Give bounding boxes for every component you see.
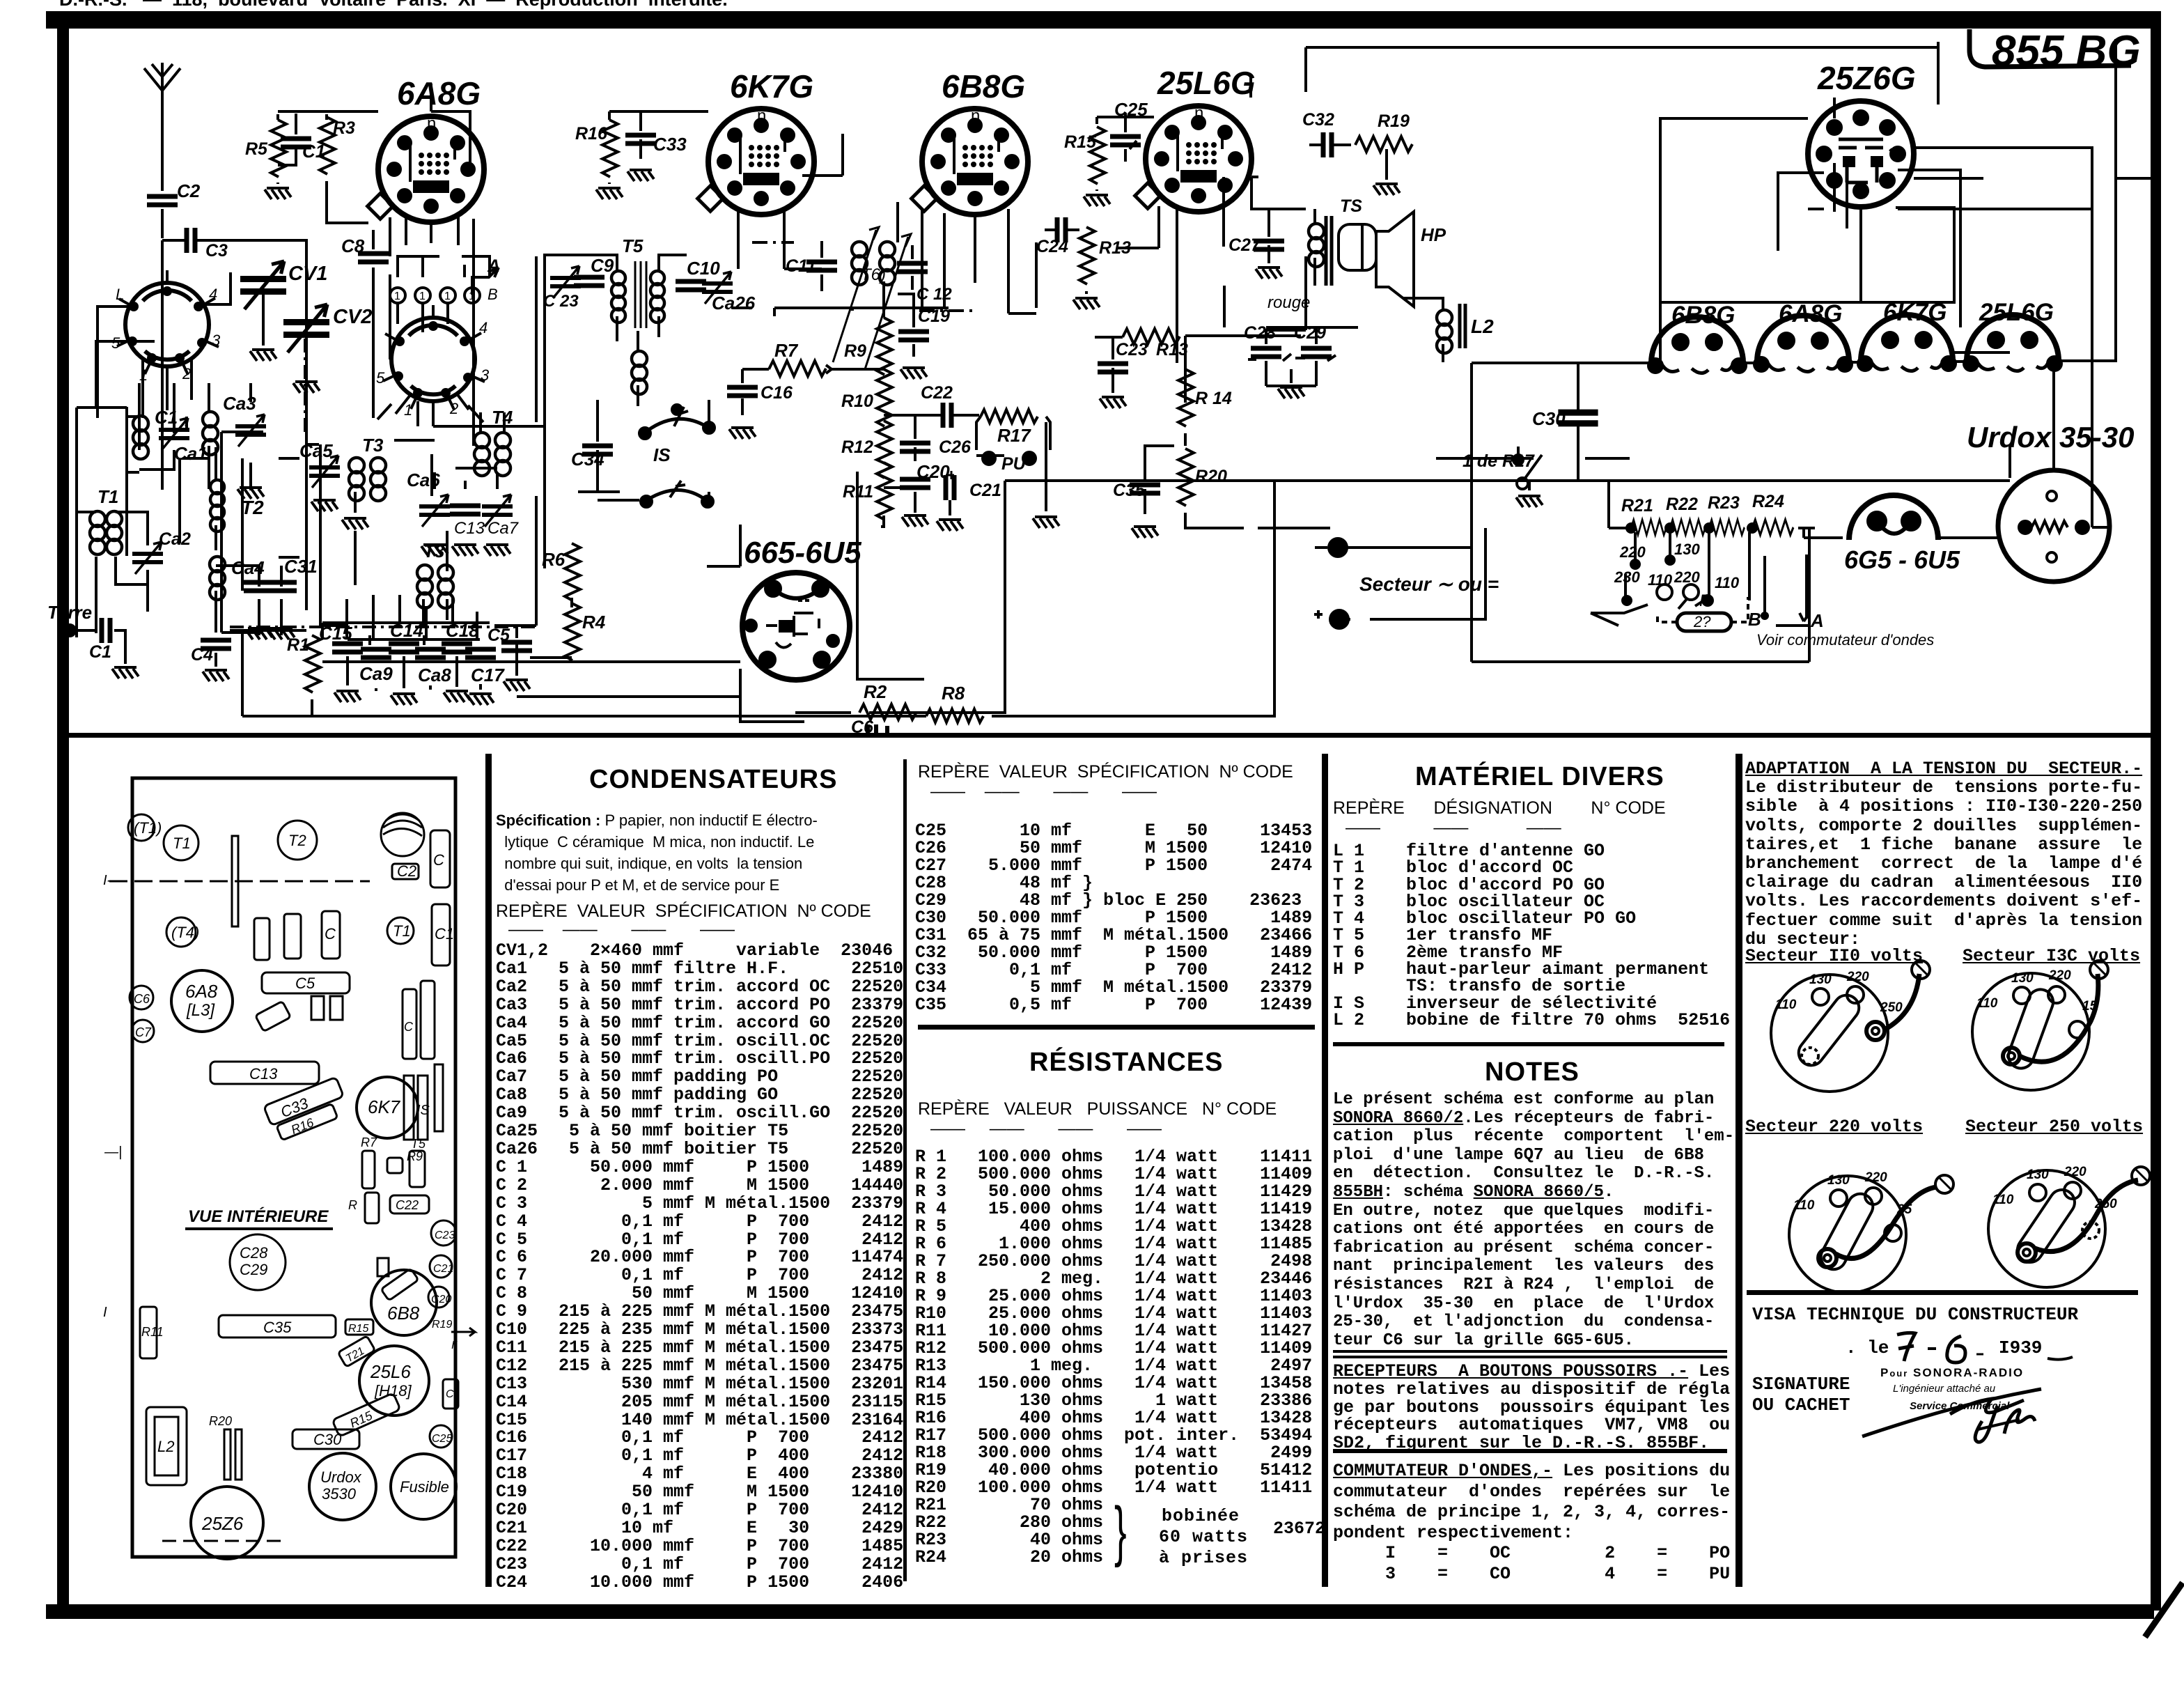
electrolytic C28 — [1244, 323, 1291, 376]
svg-text:1 de R17: 1 de R17 — [1462, 451, 1535, 471]
svg-text:C32: C32 — [1302, 110, 1334, 130]
R15 small box — [345, 1319, 373, 1335]
trimmer C9 — [543, 255, 614, 311]
svg-text:R7: R7 — [361, 1135, 377, 1149]
tube 6K7 — [357, 1077, 418, 1138]
caps C15 pair tall — [403, 981, 435, 1059]
cap C4 tall — [430, 830, 450, 887]
underline below date — [2047, 1357, 2073, 1360]
svg-text:VUE INTÉRIEURE: VUE INTÉRIEURE — [188, 1207, 329, 1226]
trafo T4 small — [166, 917, 199, 947]
svg-text:T6): T6) — [861, 265, 886, 284]
svg-text:T1: T1 — [97, 486, 118, 507]
svg-text:I: I — [103, 1305, 107, 1320]
capacitor C6 — [851, 718, 887, 737]
svg-text:130: 130 — [1674, 541, 1700, 558]
bars right — [435, 1064, 443, 1131]
wire 25L6G drops — [1117, 206, 1177, 363]
ground right — [1516, 481, 1543, 507]
wire mid bottom bus — [322, 274, 740, 697]
svg-text:C: C — [325, 925, 336, 943]
resistor R20 — [1178, 449, 1244, 528]
right border bar — [2151, 11, 2161, 1611]
coil Ca4 + C31 — [210, 556, 318, 635]
two small caps — [311, 996, 343, 1020]
svg-text:(T1): (T1) — [134, 819, 162, 837]
svg-text:R17: R17 — [997, 425, 1031, 446]
trafo T2 — [278, 821, 317, 860]
bottom distribution line — [1472, 480, 1809, 662]
svg-text:C21: C21 — [969, 481, 1001, 500]
svg-text:25Z6G: 25Z6G — [1817, 60, 1916, 96]
R7 bar — [361, 1135, 377, 1188]
svg-text:R: R — [348, 1198, 357, 1212]
svg-text:110: 110 — [1992, 1193, 2014, 1207]
svg-text:—|: —| — [104, 1145, 122, 1160]
wire under 6A8G — [406, 213, 458, 245]
svg-text:Urdox 35-30: Urdox 35-30 — [1967, 421, 2134, 453]
svg-text:230: 230 — [1614, 568, 1640, 586]
col3 rule above resistances — [918, 1025, 1315, 1030]
svg-text:665-6U5: 665-6U5 — [744, 536, 861, 570]
terre terminal — [47, 602, 92, 636]
svg-text:C5: C5 — [295, 975, 315, 992]
resistor R13a — [1073, 227, 1131, 309]
svg-text:C25: C25 — [432, 1433, 452, 1445]
svg-text:6K7G: 6K7G — [730, 68, 813, 104]
svg-text:C21: C21 — [433, 1263, 453, 1275]
svg-text:R24: R24 — [1752, 492, 1784, 511]
cap C33 tilted — [263, 1077, 343, 1126]
svg-text:3: 3 — [212, 332, 221, 349]
secteur terminals — [1314, 528, 1499, 628]
svg-text:1: 1 — [419, 290, 426, 302]
svg-text:R15: R15 — [348, 1323, 368, 1335]
svg-text:C35: C35 — [1113, 481, 1146, 500]
label rouge — [1267, 293, 1310, 312]
variable capacitor CV1 — [240, 261, 327, 361]
capacitor C5 — [487, 624, 532, 691]
svg-text:110: 110 — [1793, 1198, 1815, 1213]
top header bar — [46, 11, 2160, 29]
tube 25L6G — [1135, 65, 1256, 212]
svg-text:C3: C3 — [205, 241, 228, 261]
capacitor C34 — [571, 400, 613, 492]
tube 6A8G — [368, 75, 484, 222]
svg-text:(T4): (T4) — [171, 924, 199, 941]
capacitor C27 — [1228, 209, 1284, 279]
R20 bars — [209, 1414, 242, 1480]
tube 6B8 — [371, 1270, 437, 1335]
svg-text:220: 220 — [1864, 1170, 1887, 1185]
wire antenna down — [161, 117, 164, 191]
loudspeaker HP — [1339, 212, 1446, 307]
resistor R16 tilted — [276, 1103, 338, 1140]
svg-text:4: 4 — [209, 286, 217, 303]
capacitor C11 — [786, 241, 837, 291]
dial secteur 130 — [1972, 961, 2108, 1090]
svg-text:1: 1 — [444, 290, 451, 302]
svg-text:R11: R11 — [141, 1325, 164, 1339]
svg-text:R15: R15 — [1064, 132, 1097, 152]
wire long bottom R8 line — [242, 481, 1274, 722]
ground between C28 C29 — [1278, 369, 1304, 398]
pins row with A arrow — [390, 256, 500, 332]
dashdot gang link — [230, 295, 536, 627]
svg-text:Fusible: Fusible — [400, 1478, 449, 1496]
capacitor C1b — [278, 114, 325, 165]
svg-text:L2: L2 — [1471, 316, 1494, 337]
wires socket2 down — [377, 401, 483, 426]
tube socket S1 — [111, 270, 221, 384]
col4 rule above commutateur — [1333, 1449, 1727, 1453]
svg-text:C5: C5 — [487, 626, 510, 645]
svg-text:IS: IS — [653, 444, 671, 465]
switch IS bars — [404, 1076, 430, 1140]
fusible circle — [391, 1454, 456, 1519]
svg-text:TS: TS — [1340, 196, 1362, 216]
svg-text:C23: C23 — [435, 1230, 455, 1241]
svg-text:CV2: CV2 — [333, 306, 372, 328]
transformer T5 — [568, 235, 687, 341]
filter choke L2 — [1403, 298, 1494, 362]
svg-text:T1: T1 — [393, 922, 411, 940]
svg-text:6A8G: 6A8G — [1779, 300, 1842, 327]
R11 bar left — [140, 1307, 164, 1358]
svg-text:2: 2 — [182, 365, 191, 382]
resistor chain R9 R10 R12 R11 — [841, 307, 892, 527]
wire left column frame — [96, 341, 306, 630]
dashed shaft — [109, 881, 370, 883]
capacitor C20 — [900, 461, 950, 513]
choke coil — [632, 331, 647, 406]
left tick labels — [103, 873, 122, 1320]
svg-text:C2: C2 — [177, 180, 201, 201]
svg-text:1: 1 — [394, 290, 400, 302]
svg-text:C: C — [404, 1020, 414, 1034]
svg-text:Terre: Terre — [47, 602, 92, 623]
svg-text:25L6G: 25L6G — [1979, 299, 2054, 326]
Urdox 35-30 ballast — [1967, 421, 2134, 582]
capacitor C22 — [884, 383, 979, 428]
svg-text:R11: R11 — [843, 482, 873, 502]
svg-text:C27: C27 — [1228, 235, 1261, 255]
svg-text:C30: C30 — [313, 1431, 342, 1448]
wire speaker chain — [1177, 47, 1306, 330]
svg-text:6A8G: 6A8G — [397, 75, 481, 111]
wire heater top right — [1306, 47, 2151, 209]
wire 6K7G drops — [738, 209, 822, 269]
capacitor C32 — [1302, 110, 1351, 157]
svg-text:110: 110 — [1775, 998, 1797, 1012]
svg-text:C: C — [433, 851, 444, 869]
tube 25Z6G rectifier — [1808, 60, 1916, 207]
svg-text:I-: I- — [103, 873, 112, 888]
column divider C — [1322, 754, 1328, 1587]
wire mesh left — [127, 417, 299, 716]
cap C1 tall — [432, 904, 454, 965]
svg-text:CV1: CV1 — [288, 263, 327, 285]
column divider D — [1735, 754, 1742, 1587]
svg-text:C29: C29 — [240, 1261, 267, 1278]
svg-text:C10: C10 — [687, 258, 720, 279]
coil T2 — [210, 447, 264, 550]
svg-text:4: 4 — [479, 319, 487, 336]
svg-text:R22: R22 — [1666, 495, 1698, 514]
coil L1 — [381, 813, 424, 856]
svg-text:[H18]: [H18] — [374, 1382, 412, 1399]
cap C13 wide — [210, 1062, 319, 1084]
resistor R1 — [287, 635, 320, 716]
wire — [161, 209, 164, 238]
svg-text:T4: T4 — [492, 407, 513, 428]
capacitor C4 — [191, 640, 231, 681]
svg-text:R16: R16 — [575, 124, 608, 144]
svg-text:T3: T3 — [423, 541, 445, 561]
svg-text:6G5 - 6U5: 6G5 - 6U5 — [1844, 545, 1960, 574]
svg-text:R2: R2 — [864, 681, 887, 702]
trimmer C10 Ca26 — [676, 258, 756, 313]
antenna — [144, 63, 180, 117]
T5 bar — [409, 1137, 426, 1187]
caps row C11 C12 — [254, 911, 340, 960]
svg-text:2: 2 — [449, 400, 458, 417]
svg-text:C30: C30 — [1532, 408, 1566, 429]
svg-text:220: 220 — [2064, 1165, 2086, 1179]
coil T3 + trimmer Ca5 — [299, 435, 386, 529]
svg-text:HP: HP — [1421, 224, 1446, 245]
svg-text:R8: R8 — [942, 683, 965, 704]
transformer TS — [1309, 196, 1362, 286]
left border bar — [57, 21, 69, 1611]
coil Ca3 block — [203, 383, 266, 499]
avc dash line — [752, 242, 978, 311]
circle C25 — [430, 1425, 452, 1448]
svg-text:Ca8: Ca8 — [418, 665, 451, 685]
svg-text:C35: C35 — [263, 1319, 292, 1336]
svg-text:C28: C28 — [240, 1244, 268, 1262]
handwritten date 7 - 6 — [1897, 1333, 1983, 1363]
capacitor C30 — [1532, 363, 1598, 481]
magic eye tube 6G5-6U5 — [742, 536, 861, 680]
svg-text:Secteur ∼ ou =: Secteur ∼ ou = — [1359, 573, 1499, 595]
bottom border bar — [46, 1583, 2183, 1637]
resistor chain R21-R24 — [1609, 481, 1815, 535]
wire osc box frame — [221, 432, 477, 639]
svg-text:C23: C23 — [1116, 340, 1148, 359]
dial secteur 250 — [1988, 1165, 2150, 1287]
C22 cap — [390, 1195, 429, 1213]
C30 box — [292, 1429, 359, 1449]
svg-text:Urdox: Urdox — [320, 1468, 362, 1486]
svg-text:3530: 3530 — [322, 1485, 357, 1503]
electrolytic C29 — [1294, 323, 1336, 376]
tube 25Z6 — [191, 1487, 263, 1559]
resistor R14 — [1178, 337, 1232, 446]
svg-text:Ca26: Ca26 — [712, 293, 756, 313]
col4 double rule above recepteurs — [1333, 1350, 1727, 1358]
tube 6K7G — [698, 68, 814, 215]
svg-text:Ca2: Ca2 — [159, 529, 191, 549]
svg-text:C33: C33 — [653, 134, 687, 155]
coil T4 + caps Ca6 C13 Ca7 — [394, 407, 520, 556]
wire grid cap 6A8G — [278, 84, 470, 170]
wire plate to TS — [1251, 177, 1306, 209]
ground under chain — [902, 515, 928, 527]
wire R2 to bus — [935, 481, 1005, 713]
svg-text:R23: R23 — [1708, 493, 1740, 513]
svg-text:C13: C13 — [454, 519, 485, 538]
heater bus wires — [1472, 39, 2116, 363]
resistor R4 — [530, 598, 606, 660]
wire 6B8G drops — [922, 209, 1036, 313]
wire R24 to bottom — [1776, 528, 1809, 662]
svg-text:110: 110 — [1976, 996, 1998, 1011]
svg-text:R3: R3 — [333, 118, 355, 138]
R19 arrow — [432, 1319, 475, 1351]
svg-text:130: 130 — [1809, 972, 1832, 987]
svg-text:F: F — [1699, 591, 1710, 610]
column divider A — [485, 754, 492, 1587]
svg-text:R7: R7 — [774, 340, 799, 361]
svg-text:L2: L2 — [157, 1438, 174, 1455]
L2 box — [146, 1407, 187, 1485]
resistor R3 — [320, 117, 368, 223]
svg-text:C6: C6 — [851, 718, 874, 737]
svg-text:C19: C19 — [918, 307, 950, 326]
fuse — [1657, 597, 1748, 631]
tube 6A8 — [171, 970, 233, 1032]
dial secteur 110 — [1771, 961, 1930, 1092]
capacitor C21 — [937, 471, 1001, 531]
svg-text:3: 3 — [481, 366, 490, 384]
B+ bus — [1005, 479, 2010, 482]
inverter switch arm 2 — [641, 481, 713, 507]
svg-text:C7: C7 — [135, 1025, 152, 1039]
svg-text:250: 250 — [1880, 1000, 1903, 1015]
svg-text:C16: C16 — [760, 383, 793, 403]
wire to heater bus — [1472, 352, 2010, 480]
trimmer Ca2 — [132, 529, 191, 574]
svg-text:110: 110 — [1715, 574, 1740, 591]
dashed bottom — [162, 1540, 288, 1542]
urdox circle — [309, 1453, 376, 1520]
col5 rule above visa — [1747, 1290, 2138, 1295]
label 855 BG box — [1969, 27, 2141, 75]
wires osc section — [306, 256, 545, 585]
svg-text:L: L — [116, 286, 124, 303]
dial secteur 220 — [1789, 1170, 1953, 1293]
chassis outline — [132, 778, 455, 1557]
svg-text:II: II — [451, 1340, 458, 1351]
resistor R19 — [1355, 111, 1412, 195]
svg-text:C24: C24 — [1036, 237, 1068, 256]
svg-text:C1: C1 — [89, 642, 111, 662]
svg-text:R10: R10 — [841, 391, 873, 411]
svg-text:6B8G: 6B8G — [1671, 302, 1735, 329]
cap C5 wide — [262, 972, 350, 993]
svg-text:[L3]: [L3] — [186, 1001, 215, 1020]
svg-text:25L6: 25L6 — [370, 1361, 411, 1382]
svg-text:Ca7: Ca7 — [487, 519, 520, 538]
capacitor C1 — [89, 618, 111, 662]
label box around 6G5 — [707, 472, 924, 722]
wire socket2 leads — [396, 393, 469, 426]
C35 wide — [219, 1315, 336, 1337]
capacitor C16 — [727, 369, 793, 439]
capacitor C2 — [147, 180, 201, 205]
svg-text:R12: R12 — [841, 437, 873, 457]
svg-text:C 23: C 23 — [543, 292, 579, 311]
coil T1 primary — [90, 486, 122, 554]
grounds under C31 — [246, 628, 295, 639]
capacitor C35 — [1113, 446, 1174, 538]
svg-text:25L6G: 25L6G — [1157, 65, 1256, 101]
svg-text:5: 5 — [376, 369, 385, 387]
wires output region — [1224, 286, 1630, 458]
capacitor C12 — [897, 245, 952, 304]
svg-text:C6: C6 — [134, 992, 150, 1006]
svg-text:6A8: 6A8 — [185, 981, 218, 1002]
svg-text:220: 220 — [1846, 970, 1869, 984]
6G5-6U5 heater arc — [1804, 495, 1975, 574]
wires T1 — [77, 512, 148, 637]
small circle C7 — [132, 1020, 154, 1042]
svg-text:5: 5 — [111, 334, 120, 352]
svg-text:T5: T5 — [622, 235, 643, 256]
svg-text:130: 130 — [2027, 1168, 2049, 1182]
coil Ca1 block — [127, 383, 208, 472]
wire urdox feeds — [1804, 357, 2109, 538]
R10 bar — [348, 1193, 379, 1223]
variable capacitor CV2 — [283, 304, 372, 393]
resistor R7 — [742, 340, 884, 376]
svg-text:R4: R4 — [582, 612, 606, 633]
svg-text:T2: T2 — [288, 832, 306, 849]
heater chain arcs — [1648, 302, 1746, 373]
svg-text:T5: T5 — [411, 1137, 426, 1151]
svg-text:25Z6: 25Z6 — [201, 1513, 244, 1534]
svg-text:T1: T1 — [173, 835, 191, 852]
terminals A B — [1748, 554, 1934, 649]
svg-text:R19: R19 — [1378, 111, 1410, 131]
capacitor C19 — [898, 307, 950, 379]
capacitor C8 — [341, 230, 389, 284]
coil T3 second — [417, 541, 453, 627]
transformer T6 with tuning arrows — [833, 227, 911, 369]
svg-text:B: B — [487, 286, 498, 303]
switch 1 de R17 — [1462, 447, 1542, 489]
resistor R2 — [795, 681, 1006, 720]
svg-text:220: 220 — [1674, 568, 1700, 586]
capacitor C25b — [1110, 99, 1148, 162]
svg-text:1: 1 — [404, 401, 412, 419]
svg-text:B: B — [1748, 609, 1761, 630]
svg-text:R19: R19 — [432, 1319, 452, 1331]
svg-text:IS: IS — [416, 1103, 430, 1118]
wire T-block frame — [320, 444, 536, 626]
svg-text:R9: R9 — [844, 341, 866, 361]
wire cap bank top bus — [322, 623, 490, 639]
capacitor C33 — [625, 111, 687, 181]
potentiometer R17 — [976, 410, 1059, 528]
svg-text:C9: C9 — [591, 255, 614, 276]
trafo T1b — [387, 917, 414, 944]
svg-text:rouge: rouge — [1267, 293, 1310, 312]
cap C2 — [392, 862, 419, 880]
svg-text:6B8: 6B8 — [387, 1303, 420, 1324]
svg-text:A: A — [1810, 610, 1824, 631]
